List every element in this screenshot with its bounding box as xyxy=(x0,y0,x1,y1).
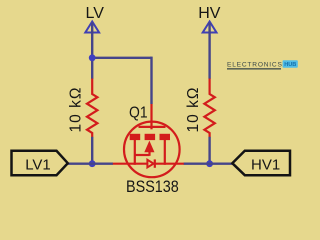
port tag LV1 xyxy=(12,151,68,175)
wire LV to gate horizontal xyxy=(92,57,151,59)
resistor R2 10k (HV pull-up) xyxy=(204,79,214,138)
Q1 body arrow head (N-channel) xyxy=(144,141,154,153)
Q1 channel dash drain xyxy=(160,134,171,140)
supply arrow LV xyxy=(85,22,99,33)
resistor R1 10k (LV pull-up) xyxy=(87,79,97,138)
Q1 channel dash body xyxy=(145,134,156,140)
svg-text:10 kΩ: 10 kΩ xyxy=(185,88,202,133)
Q1 gate plate xyxy=(139,126,166,128)
svg-text:BSS138: BSS138 xyxy=(126,178,179,196)
svg-text:ELECTRONICS: ELECTRONICS xyxy=(227,62,283,69)
Q1 channel dash source xyxy=(130,134,141,140)
wire gate vertical xyxy=(150,57,152,104)
svg-text:HUB: HUB xyxy=(284,62,296,68)
transistor Q1 BSS138 xyxy=(113,104,184,177)
node A junction dot (LV rail / gate branch) xyxy=(89,54,96,61)
Q1 source lead (left, red) xyxy=(113,163,148,165)
wire LV1 tag to Q1 source xyxy=(66,162,113,164)
supply arrow HV xyxy=(203,22,217,33)
body diode anode triangle xyxy=(147,160,153,168)
svg-text:LV: LV xyxy=(86,5,105,22)
Q1 source stem xyxy=(134,140,136,165)
svg-text:HV1: HV1 xyxy=(251,157,280,174)
Q1 drain stem xyxy=(164,140,166,165)
wire Q1 drain to HV1 tag xyxy=(184,162,234,164)
Q1 body arrow shaft xyxy=(148,152,150,156)
logo Electronics Hub xyxy=(227,60,298,69)
svg-text:10 kΩ: 10 kΩ xyxy=(68,88,85,133)
wire HV vertical top xyxy=(208,23,210,79)
Q1 drain lead (right, red) xyxy=(155,163,184,165)
svg-text:LV1: LV1 xyxy=(25,157,51,174)
svg-text:HV: HV xyxy=(198,5,221,22)
wire LV vertical bottom xyxy=(91,137,93,164)
port tag HV1 xyxy=(232,151,290,175)
Q1 body tie line xyxy=(135,154,150,156)
svg-text:Q1: Q1 xyxy=(129,104,148,121)
node LV1 junction dot xyxy=(89,160,96,167)
Q1 body circle xyxy=(124,122,180,178)
wire HV vertical bottom xyxy=(208,137,210,164)
body diode cathode bar xyxy=(154,159,156,167)
node HV1 junction dot xyxy=(206,160,213,167)
Q1 gate pin xyxy=(150,104,152,129)
wire LV vertical top xyxy=(91,23,93,79)
